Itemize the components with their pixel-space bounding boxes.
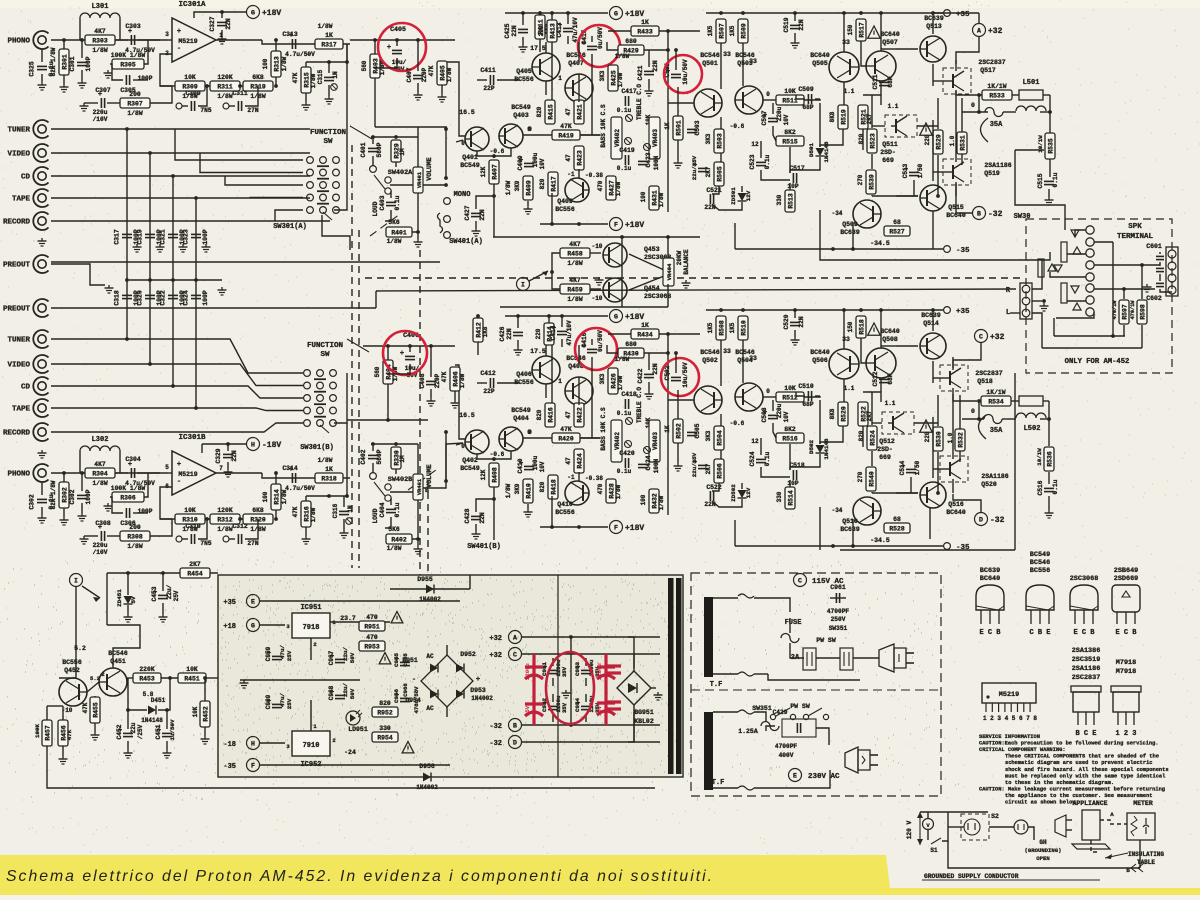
resistor R411 — [535, 15, 545, 39]
svg-text:C322: C322 — [160, 290, 167, 306]
svg-text:10K: 10K — [784, 88, 796, 95]
wire top — [920, 811, 988, 813]
svg-text:35V: 35V — [524, 705, 531, 716]
svg-text:C320: C320 — [137, 290, 144, 306]
capacitor — [756, 162, 766, 165]
wire — [580, 437, 600, 439]
wire — [927, 830, 929, 840]
package BC549/BC546/BC556 — [1026, 585, 1054, 624]
ground — [202, 244, 211, 252]
wire — [388, 364, 410, 374]
wire — [872, 492, 918, 494]
svg-text:C409: C409 — [517, 155, 524, 170]
terminal terminal I — [517, 278, 530, 291]
wire — [1032, 313, 1042, 348]
svg-text:0: 0 — [766, 388, 770, 395]
junction — [327, 494, 331, 498]
wire — [1075, 230, 1086, 237]
bridge rectifier D951-D954 — [421, 655, 473, 707]
capacitor — [400, 350, 415, 360]
wire — [110, 497, 123, 513]
resistor R953 — [359, 634, 385, 651]
wire preout to SPK — [376, 289, 1016, 291]
wire — [306, 495, 347, 497]
wire — [1049, 159, 1051, 177]
right terminal strip — [1166, 247, 1178, 296]
svg-text:1/8W: 1/8W — [217, 526, 233, 533]
svg-text:16.5: 16.5 — [459, 412, 475, 419]
zener ZD501 — [738, 193, 747, 201]
junction — [577, 222, 581, 226]
junction — [80, 38, 84, 42]
svg-text:C514: C514 — [899, 460, 906, 475]
svg-text:R421: R421 — [576, 104, 583, 120]
svg-text:1/8W: 1/8W — [658, 192, 665, 207]
switch lever — [808, 708, 822, 716]
warning triangle — [402, 742, 414, 753]
svg-text:1N4002: 1N4002 — [471, 695, 493, 702]
ground — [179, 244, 188, 252]
svg-text:R508: R508 — [718, 320, 725, 336]
winding squiggle — [738, 672, 754, 676]
appliance box — [1082, 810, 1100, 840]
wire lever — [374, 482, 385, 496]
wire — [160, 518, 270, 520]
wire — [852, 222, 854, 249]
wire — [804, 396, 820, 397]
potentiometer VR404 — [663, 258, 674, 286]
ground — [156, 244, 165, 252]
wire — [962, 418, 984, 420]
wire — [1139, 840, 1141, 868]
wire — [527, 201, 529, 206]
svg-text:4.7u/50V: 4.7u/50V — [285, 51, 315, 58]
svg-text:680: 680 — [625, 38, 637, 45]
wire — [585, 678, 587, 686]
wire — [591, 36, 593, 42]
svg-text:R540: R540 — [868, 471, 875, 487]
red highlight ellipse — [546, 652, 594, 724]
svg-text:220P: 220P — [434, 373, 441, 388]
arrow — [542, 271, 548, 276]
svg-text:VOLUME: VOLUME — [426, 464, 433, 488]
capacitor — [687, 432, 697, 435]
svg-text:F: F — [251, 763, 255, 770]
wire — [306, 61, 347, 63]
input jack TUNER R — [33, 330, 48, 348]
warning triangle — [379, 653, 391, 664]
wire — [446, 645, 448, 655]
svg-text:R518: R518 — [858, 319, 865, 335]
ground — [60, 84, 69, 92]
switch bar — [314, 378, 326, 380]
junction — [1048, 110, 1052, 114]
capacitor — [471, 213, 481, 216]
junction — [879, 308, 883, 312]
wire — [128, 678, 147, 710]
ground — [595, 277, 604, 285]
resistor R311 — [210, 74, 240, 100]
capacitor — [808, 94, 811, 104]
resistor R403 — [370, 54, 380, 78]
crossed terminal — [644, 144, 651, 151]
svg-text:68: 68 — [893, 516, 901, 523]
svg-text:C324: C324 — [183, 290, 190, 306]
svg-text:Q402: Q402 — [462, 457, 478, 464]
transistor Q453 — [603, 243, 627, 267]
svg-text:Q514: Q514 — [923, 320, 939, 327]
junction — [148, 362, 152, 366]
svg-text:-10: -10 — [592, 295, 603, 302]
svg-text:0: 0 — [971, 408, 975, 415]
junction — [194, 278, 198, 282]
potentiometer VR401 — [413, 167, 423, 193]
red highlight around C502 — [661, 358, 699, 396]
terminal terminal A +32 +32 — [973, 24, 986, 37]
resistor R310 — [175, 507, 205, 533]
svg-text:+32: +32 — [990, 333, 1005, 342]
transistor Q504 — [735, 383, 763, 411]
wire — [766, 726, 775, 731]
wire — [137, 39, 168, 41]
junction — [1111, 334, 1115, 338]
wire bottom — [948, 841, 1140, 868]
svg-text:B: B — [513, 723, 517, 730]
capacitor — [666, 68, 681, 78]
capacitor — [687, 129, 697, 132]
wire — [953, 494, 981, 512]
input jack PREOUT 2 — [33, 299, 48, 317]
junction — [793, 11, 797, 15]
open terminal — [803, 714, 808, 719]
wire — [763, 396, 776, 398]
svg-text:47: 47 — [565, 108, 572, 116]
svg-text:+: + — [387, 44, 391, 52]
svg-text:47K: 47K — [560, 426, 572, 433]
svg-text:33: 33 — [842, 336, 850, 343]
wire — [580, 134, 600, 136]
wire phono in — [51, 472, 160, 474]
wire — [221, 12, 223, 18]
op-amp IC301A — [165, 1, 223, 62]
ground — [80, 536, 89, 544]
svg-text:R452: R452 — [202, 706, 209, 722]
svg-text:C403: C403 — [379, 195, 386, 210]
wire — [712, 186, 719, 194]
warning triangle — [868, 26, 881, 38]
svg-text:SW351: SW351 — [829, 625, 848, 632]
transistor mirror pair — [866, 348, 896, 378]
svg-text:820: 820 — [539, 178, 546, 189]
svg-text:35V: 35V — [561, 666, 568, 677]
svg-text:E C B: E C B — [1073, 629, 1095, 637]
wire — [794, 330, 796, 337]
svg-text:2SD-: 2SD- — [880, 149, 896, 156]
transistor BC546 Q408 — [565, 377, 593, 405]
wire — [648, 382, 650, 391]
switch terminal — [385, 177, 391, 183]
svg-text:E C B: E C B — [1115, 629, 1137, 637]
wire — [225, 538, 235, 540]
pointer line — [1105, 853, 1128, 858]
wire — [667, 237, 669, 258]
svg-text:R416: R416 — [547, 407, 554, 423]
svg-text:TUNER: TUNER — [7, 337, 30, 345]
wire to balance — [493, 499, 495, 540]
wire — [561, 316, 563, 327]
resistor R420 — [552, 426, 580, 443]
wire — [1123, 325, 1125, 336]
ground — [438, 94, 447, 102]
dashed boundary — [427, 480, 429, 590]
svg-text:BC556: BC556 — [555, 206, 575, 213]
svg-text:C323: C323 — [183, 229, 190, 245]
svg-text:C422: C422 — [637, 368, 644, 383]
wire to switch B — [51, 408, 303, 411]
svg-text:+18V: +18V — [625, 10, 644, 19]
speaker terminal triangle — [1071, 286, 1079, 293]
svg-text:R410: R410 — [525, 483, 532, 499]
svg-text:Q507: Q507 — [882, 39, 898, 46]
svg-text:12V: 12V — [745, 190, 752, 201]
svg-text:-0.38: -0.38 — [585, 475, 603, 482]
switch contact — [333, 182, 340, 189]
input jack RECORD R — [33, 423, 48, 441]
connector circle — [1014, 820, 1028, 834]
wire — [754, 673, 768, 675]
svg-text:I: I — [521, 282, 525, 289]
svg-text:1.25A: 1.25A — [738, 728, 758, 735]
wire — [551, 193, 553, 224]
svg-text:C327: C327 — [209, 16, 216, 31]
junction — [831, 544, 835, 548]
switch terminal — [385, 495, 391, 501]
svg-text:1/8W: 1/8W — [310, 73, 317, 88]
svg-text:C424: C424 — [645, 455, 652, 470]
svg-text:C601: C601 — [1146, 243, 1162, 250]
svg-text:D502: D502 — [808, 440, 815, 454]
svg-text:47: 47 — [565, 154, 572, 162]
svg-text:1/8W: 1/8W — [92, 480, 108, 487]
junction — [560, 314, 564, 318]
svg-text:D501: D501 — [808, 143, 815, 157]
wire +18V rail — [505, 315, 608, 317]
resistor R402 — [386, 534, 412, 544]
ground — [791, 40, 800, 48]
svg-text:FUSE: FUSE — [785, 619, 802, 627]
svg-text:1.0: 1.0 — [947, 432, 954, 443]
wire link — [172, 176, 174, 386]
ground — [218, 36, 227, 44]
ground — [414, 92, 423, 100]
terminal terminal G +18V +18V — [247, 6, 260, 19]
capacitor — [324, 77, 334, 80]
wire — [79, 18, 81, 40]
wire — [160, 54, 172, 86]
svg-text:820: 820 — [379, 700, 391, 707]
fuse 2A — [781, 634, 799, 643]
terminal terminal C psu — [509, 648, 522, 661]
svg-text:B C E: B C E — [1075, 730, 1096, 738]
svg-text:C311: C311 — [232, 90, 248, 97]
ground — [562, 690, 571, 698]
wire — [346, 478, 348, 496]
wire +32 C — [522, 653, 660, 655]
capacitor — [289, 32, 296, 49]
capacitor — [490, 75, 493, 85]
capacitor — [763, 112, 778, 122]
svg-text:1K5: 1K5 — [729, 25, 736, 36]
svg-text:35V: 35V — [596, 705, 603, 716]
wire — [63, 75, 65, 84]
zener ZD451 — [124, 596, 133, 604]
wire — [523, 134, 552, 136]
svg-text:R507: R507 — [718, 23, 725, 39]
svg-text:82K 1/8W: 82K 1/8W — [50, 480, 57, 509]
wire — [734, 520, 736, 546]
input jack CD R — [33, 377, 48, 395]
svg-text:100P: 100P — [85, 56, 92, 71]
wire — [545, 384, 547, 398]
svg-text:220u: 220u — [776, 403, 783, 418]
svg-text:C519: C519 — [783, 17, 790, 32]
svg-text:C968: C968 — [328, 685, 335, 700]
transistor Q409 — [565, 178, 589, 202]
svg-text:-: - — [412, 676, 416, 684]
wire — [933, 12, 979, 14]
fuse holder arc — [981, 118, 989, 142]
wire — [552, 678, 554, 686]
svg-text:TUNER: TUNER — [7, 127, 30, 135]
wire — [310, 700, 312, 731]
ground — [451, 400, 460, 408]
svg-text:C312: C312 — [232, 523, 248, 530]
capacitor — [395, 692, 410, 702]
svg-text:0.1u: 0.1u — [1052, 172, 1059, 187]
wire — [545, 345, 547, 356]
svg-text:C402: C402 — [360, 449, 367, 464]
svg-text:C419: C419 — [619, 147, 635, 154]
wire — [667, 284, 669, 307]
svg-text:C954: C954 — [574, 698, 581, 712]
svg-text:68P: 68P — [887, 76, 894, 87]
svg-text:L502: L502 — [1024, 425, 1041, 433]
wire mid — [240, 679, 360, 681]
junction — [977, 399, 981, 403]
resistor R315 — [301, 67, 311, 93]
internal divider — [557, 575, 559, 777]
wire — [343, 519, 345, 530]
ground spk — [1143, 284, 1152, 292]
svg-text:TREBLE C.O: TREBLE C.O — [636, 387, 643, 423]
wire — [927, 812, 929, 818]
wire — [1048, 189, 1050, 197]
wire -35 rail — [735, 545, 943, 547]
svg-text:BC640: BC640 — [810, 52, 830, 59]
wire — [880, 81, 882, 95]
resistor R519 — [838, 105, 848, 129]
resistor R501 — [673, 116, 683, 140]
wire — [1053, 318, 1055, 336]
svg-text:VR403: VR403 — [652, 432, 659, 450]
svg-text:2SC2837: 2SC2837 — [975, 370, 1002, 377]
wire — [773, 423, 776, 438]
junction — [148, 151, 152, 155]
svg-text:R533: R533 — [989, 93, 1005, 100]
wire — [896, 48, 918, 50]
svg-text:C315: C315 — [317, 69, 324, 84]
wire — [962, 111, 988, 113]
svg-text:-: - — [177, 478, 181, 486]
wire to switch B — [51, 423, 303, 432]
svg-text:Q454: Q454 — [644, 285, 660, 292]
svg-text:+: + — [177, 28, 181, 36]
svg-text:470: 470 — [366, 614, 378, 621]
svg-text:C: C — [513, 652, 517, 659]
wire — [527, 504, 529, 509]
svg-text:220P: 220P — [421, 67, 428, 82]
svg-text:C502: C502 — [664, 365, 671, 380]
svg-text:C452: C452 — [116, 724, 123, 739]
resistor R417 — [548, 172, 558, 196]
wire — [41, 49, 43, 62]
ground — [524, 206, 533, 214]
svg-text:G: G — [251, 623, 255, 630]
junction — [931, 308, 935, 312]
speaker terminal triangle — [1054, 265, 1062, 272]
resistor R320 — [243, 507, 273, 533]
junction — [741, 11, 745, 15]
open terminal — [444, 198, 451, 205]
capacitor — [625, 399, 628, 409]
svg-text:1N4148: 1N4148 — [823, 438, 830, 459]
wire — [880, 13, 882, 51]
resistor R540 — [866, 467, 876, 491]
svg-text:8K2: 8K2 — [784, 129, 796, 136]
svg-text:R514: R514 — [787, 490, 794, 506]
wire — [346, 44, 348, 62]
capacitor — [582, 40, 597, 50]
capacitor C302 — [29, 494, 56, 510]
wire — [409, 346, 411, 352]
junction — [205, 84, 209, 88]
ground — [80, 103, 89, 111]
potentiometer VR401 — [413, 474, 423, 500]
wire — [712, 499, 742, 507]
wire — [330, 621, 390, 623]
junction — [851, 247, 855, 251]
svg-text:BASS 10K C.S: BASS 10K C.S — [600, 407, 607, 451]
capacitor — [386, 509, 396, 512]
capacitor — [238, 534, 241, 544]
svg-text:2SA1186: 2SA1186 — [984, 162, 1011, 169]
wire — [374, 78, 376, 127]
open terminal — [823, 714, 828, 719]
svg-text:C417: C417 — [621, 88, 637, 95]
wire — [1094, 288, 1155, 290]
svg-text:R529: R529 — [935, 134, 942, 150]
wire — [1050, 272, 1086, 277]
svg-text:R459: R459 — [567, 287, 583, 294]
svg-text:4K7: 4K7 — [94, 461, 106, 468]
wire — [245, 86, 258, 106]
svg-text:PREOUT: PREOUT — [3, 262, 31, 270]
svg-text:100: 100 — [262, 491, 269, 502]
junction — [620, 235, 624, 239]
input jack PHONO R — [33, 464, 48, 482]
capacitor — [1156, 268, 1164, 271]
svg-text:1/8W: 1/8W — [505, 483, 512, 498]
